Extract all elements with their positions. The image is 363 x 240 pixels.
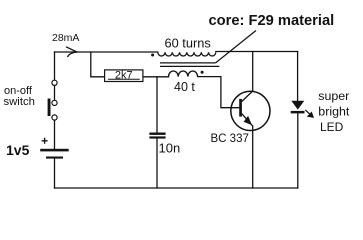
transistor Q1 base bar <box>239 99 242 117</box>
switch S1 actuator bar <box>48 99 51 117</box>
wire collector to rail <box>252 52 254 92</box>
svg-text:BC 337: BC 337 <box>211 133 249 145</box>
svg-text:switch: switch <box>4 96 35 108</box>
svg-text:60 turns: 60 turns <box>165 35 211 50</box>
svg-text:core: F29 material: core: F29 material <box>209 13 335 29</box>
wire rail drop to resistor <box>91 52 105 77</box>
svg-text:super: super <box>318 89 349 103</box>
svg-text:2k7: 2k7 <box>115 69 133 81</box>
svg-text:40 t: 40 t <box>174 80 195 94</box>
wire 40t right to base <box>198 77 240 108</box>
wire resistor to junction <box>143 76 169 78</box>
switch S1 contact bottom <box>52 115 57 120</box>
wire capacitor to bottom rail <box>156 139 158 188</box>
transformer T1 core line upper <box>160 62 216 64</box>
wire junction down to capacitor <box>156 77 158 133</box>
wire emitter to bottom rail <box>252 126 254 188</box>
switch S1 contact top <box>52 80 57 85</box>
transistor Q1 circle <box>231 91 270 130</box>
battery B1 positive plate <box>40 149 68 152</box>
transformer T1 primary phase dot <box>151 54 154 57</box>
wire left drop to switch <box>54 52 56 80</box>
core pointer line <box>216 31 256 63</box>
transistor Q1 collector stroke <box>242 91 253 102</box>
transformer T1 secondary 40t winding <box>169 71 198 77</box>
transformer T1 secondary phase dot <box>201 71 204 74</box>
LED D1 light arrow <box>305 110 313 117</box>
wire switch link <box>54 85 56 100</box>
svg-text:1v5: 1v5 <box>6 142 30 158</box>
resistor R1 label underline <box>108 78 140 80</box>
transformer T1 primary 60 turns winding <box>158 52 216 56</box>
wire LED cathode to rail <box>297 113 299 188</box>
capacitor C1 plate bottom <box>149 136 165 138</box>
battery B1 negative plate <box>46 157 63 159</box>
svg-text:10n: 10n <box>159 141 181 156</box>
svg-text:LED: LED <box>320 120 344 134</box>
wire top rail right <box>216 51 298 53</box>
svg-text:bright: bright <box>318 104 350 118</box>
wire switch to battery <box>54 120 56 149</box>
wire bottom rail <box>55 187 298 189</box>
transformer T1 core line lower <box>160 65 219 67</box>
switch S1 contact middle <box>52 100 57 105</box>
LED D1 triangle <box>291 101 304 110</box>
transistor Q1 emitter arrowhead <box>244 116 252 125</box>
wire battery to bottom rail <box>54 159 56 188</box>
svg-text:on-off: on-off <box>4 85 33 97</box>
svg-text:28mA: 28mA <box>52 32 79 44</box>
current arrow 28mA <box>66 47 77 57</box>
battery plus sign <box>42 138 48 144</box>
resistor R1 2k7 box <box>105 70 143 82</box>
transistor Q1 emitter stroke <box>242 114 253 126</box>
capacitor C1 plate top <box>149 133 165 135</box>
wire rail to LED anode <box>297 52 299 102</box>
wire top rail left <box>55 51 158 53</box>
LED D1 cathode bar <box>291 111 305 114</box>
